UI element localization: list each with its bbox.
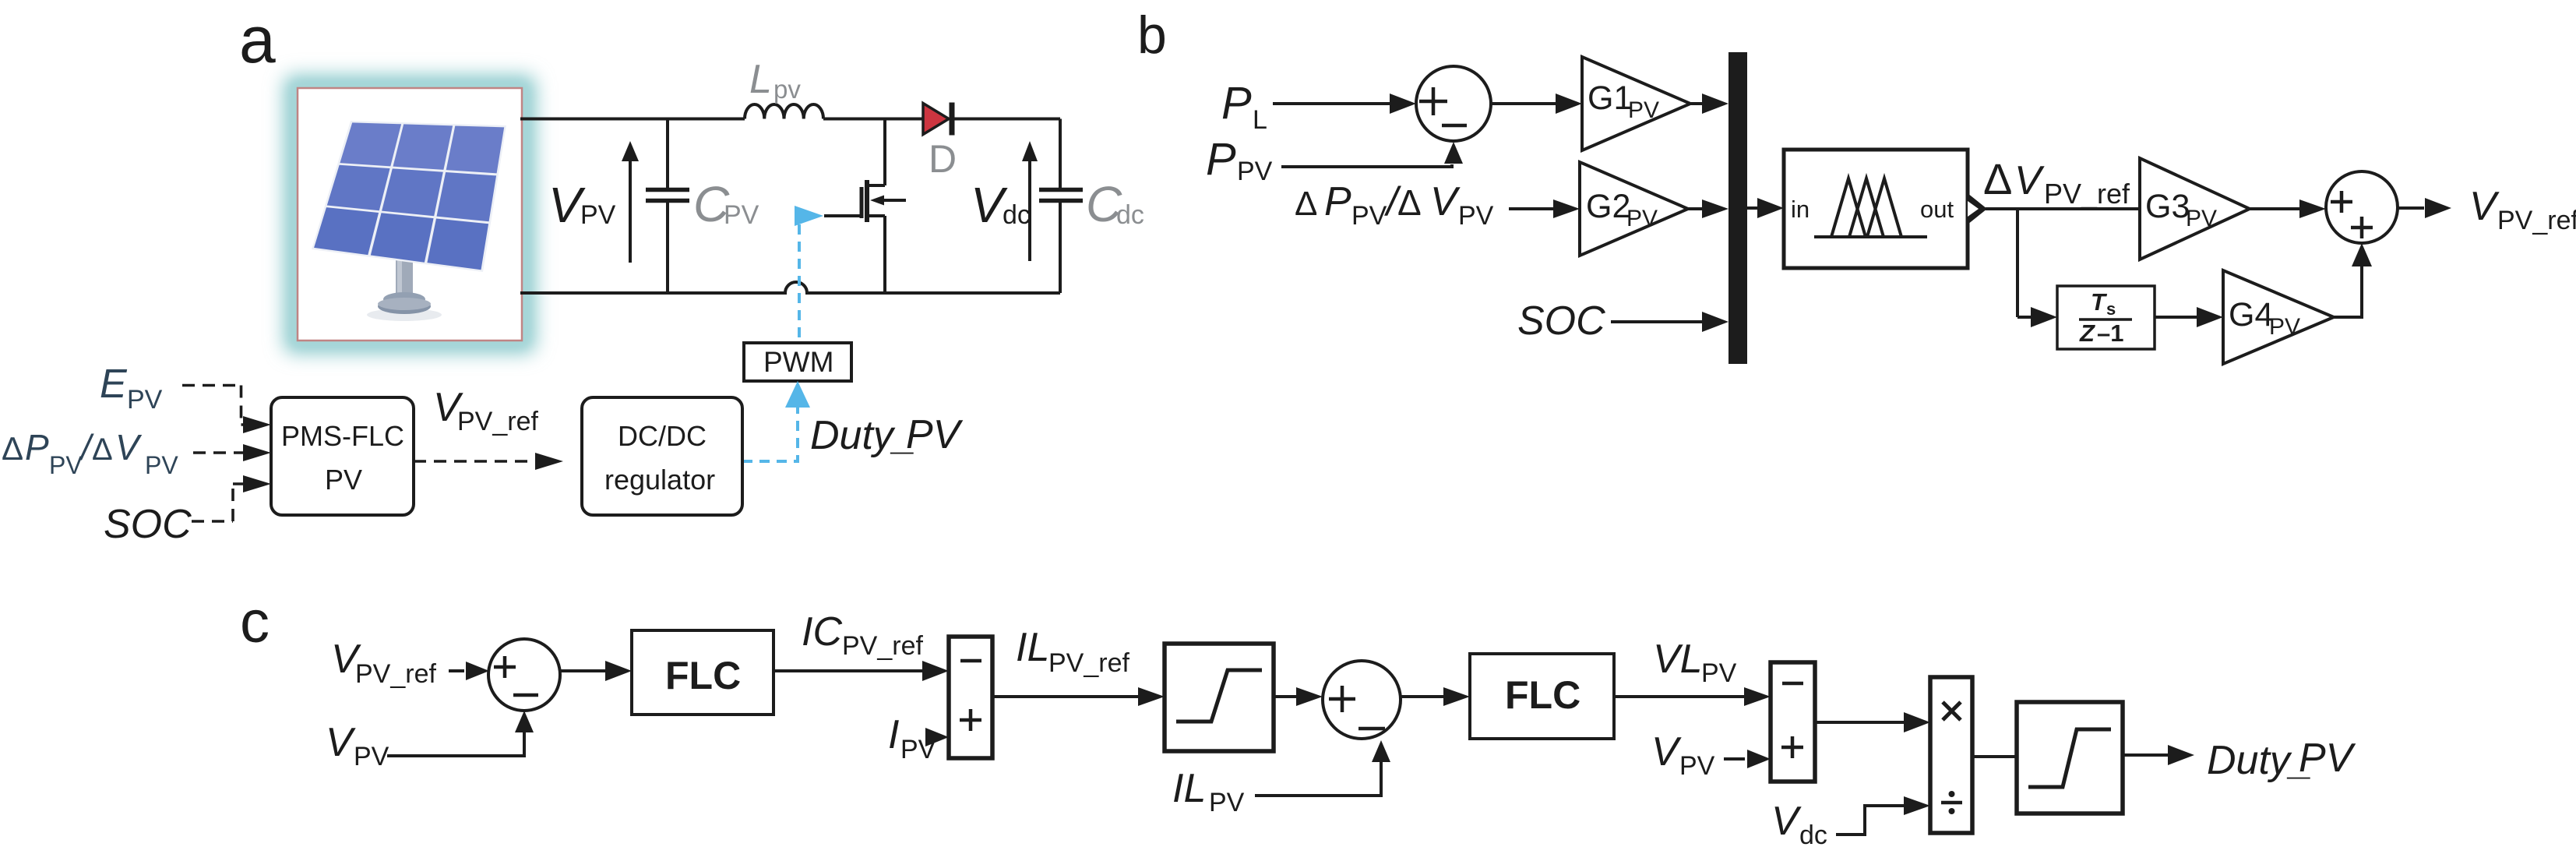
wire FLC2 to sum block B2 xyxy=(1614,695,1744,698)
label dPPV/dVPV b xyxy=(1295,179,1494,231)
svg-text:dc: dc xyxy=(1116,200,1144,230)
svg-text:P: P xyxy=(25,427,49,468)
diode D xyxy=(923,104,949,135)
svg-text:IL: IL xyxy=(1016,625,1049,670)
svg-text:G4: G4 xyxy=(2229,296,2273,334)
svg-text:PV: PV xyxy=(1237,157,1273,186)
wire G1 to mux xyxy=(1690,102,1703,105)
label dPPV/dVPV input xyxy=(2,427,178,479)
dashed wire VPV_ref to DC/DC regulator xyxy=(414,460,536,463)
wire VPV to summer C1 minus xyxy=(387,732,524,756)
svg-text:DC/DC: DC/DC xyxy=(618,420,707,452)
svg-text:V: V xyxy=(326,720,356,765)
svg-text:V: V xyxy=(1430,179,1461,224)
wire VPV_ref to summer C1 xyxy=(449,669,464,672)
svg-text:Δ: Δ xyxy=(1983,154,2012,203)
wire mux to fuzzy controller xyxy=(1747,206,1757,210)
wire saturation1 to summer C2 xyxy=(1274,695,1296,698)
svg-text:PV: PV xyxy=(724,200,759,230)
node branch dVPV_ref xyxy=(2016,209,2019,317)
svg-text:c: c xyxy=(240,589,270,655)
block PMS-FLC PV xyxy=(271,397,414,515)
fuzzy output port xyxy=(1968,193,1987,224)
block PWM xyxy=(744,343,851,381)
block fuzzy logic controller xyxy=(1784,150,1968,268)
svg-text:b: b xyxy=(1137,5,1167,65)
wire B1 to saturation1 xyxy=(992,695,1139,698)
svg-text:PV: PV xyxy=(325,464,362,496)
svg-text:PV: PV xyxy=(1351,201,1387,231)
svg-text:PV_ref: PV_ref xyxy=(2044,178,2130,210)
wire PL to summer xyxy=(1273,102,1391,105)
mux bar xyxy=(1728,52,1747,364)
arrow Vdc voltage xyxy=(1028,158,1031,261)
svg-text:Δ: Δ xyxy=(92,432,113,467)
arrow VPV voltage xyxy=(629,158,632,263)
summing junction S2 xyxy=(2326,171,2398,243)
block FLC2 xyxy=(1470,654,1614,739)
svg-text:PV: PV xyxy=(2269,314,2300,340)
svg-text:PV: PV xyxy=(127,385,163,415)
block saturation1 xyxy=(1165,644,1274,751)
svg-text:P: P xyxy=(1324,179,1351,224)
svg-text:Δ: Δ xyxy=(1295,185,1317,223)
capacitor Cdc branch wire xyxy=(1059,119,1062,294)
svg-text:G2: G2 xyxy=(1586,188,1630,225)
svg-text:G1: G1 xyxy=(1588,79,1632,117)
product block xyxy=(1930,677,1972,833)
wire S2 output VPV_ref xyxy=(2398,206,2424,210)
wire VPV to B2 plus xyxy=(1724,757,1745,761)
wire PV positive to boost input node xyxy=(520,118,745,121)
wire fuzzy out to G3 xyxy=(1986,207,2140,210)
wire G3 to summer S2 xyxy=(2250,207,2299,210)
wire Ts to G4 xyxy=(2155,316,2197,319)
summing junction S1 xyxy=(1416,66,1491,141)
svg-text:Duty_: Duty_ xyxy=(810,413,916,458)
svg-text:PWM: PWM xyxy=(763,346,833,378)
wire G2 to mux xyxy=(1688,207,1703,210)
svg-text:V: V xyxy=(115,427,143,468)
wire IPV to B1 plus xyxy=(925,728,949,746)
svg-text:SOC: SOC xyxy=(1517,298,1605,344)
wire dPPV/dVPV to G2 xyxy=(1509,207,1554,210)
block DC/DC regulator xyxy=(582,397,742,515)
svg-text:–1: –1 xyxy=(2097,319,2123,347)
svg-text:PV: PV xyxy=(1679,751,1715,781)
summing junction C2 xyxy=(1323,661,1401,739)
svg-text:Duty_: Duty_ xyxy=(2207,738,2313,783)
wire PPV to summer minus xyxy=(1281,164,1452,167)
dashed wire EPV input xyxy=(182,386,245,425)
inductor Lpv xyxy=(745,104,823,119)
sum block B2 xyxy=(1771,662,1815,782)
svg-text:IL: IL xyxy=(1172,766,1206,811)
svg-text:PV: PV xyxy=(1458,201,1494,231)
svg-text:L: L xyxy=(749,57,772,102)
svg-text:PV: PV xyxy=(145,451,178,479)
svg-text:V: V xyxy=(1651,729,1682,775)
svg-text:VL: VL xyxy=(1653,637,1703,682)
PV array photo U_PV xyxy=(284,75,536,354)
svg-text:PMS-FLC: PMS-FLC xyxy=(281,420,404,452)
svg-text:D: D xyxy=(929,137,957,181)
wire inductor to MOSFET drain node xyxy=(823,118,923,121)
svg-text:PV_ref: PV_ref xyxy=(355,659,436,689)
svg-text:PV: PV xyxy=(1628,97,1659,123)
wire C2 to FLC2 xyxy=(1401,695,1443,698)
svg-text:P: P xyxy=(1221,78,1252,129)
svg-text:PV_ref: PV_ref xyxy=(842,631,923,661)
summing junction C1 xyxy=(488,639,560,711)
gain G4PV xyxy=(2223,270,2334,364)
svg-text:PV_ref: PV_ref xyxy=(457,407,538,436)
svg-text:Δ: Δ xyxy=(2,430,23,467)
wire product to saturation2 xyxy=(1972,755,2017,758)
block saturation2 xyxy=(2017,702,2123,813)
svg-text:dc: dc xyxy=(1003,200,1031,230)
wire summer to G1 xyxy=(1491,102,1556,105)
svg-text:SOC: SOC xyxy=(104,502,192,547)
svg-text:PV: PV xyxy=(580,200,616,230)
wire branch to Ts block xyxy=(2017,316,2031,319)
capacitor Cdc xyxy=(1039,190,1083,201)
svg-text:V: V xyxy=(2469,184,2500,229)
transistor Q1 MOSFET xyxy=(824,119,906,294)
svg-text:FLC: FLC xyxy=(665,654,741,697)
capacitor CPV xyxy=(646,190,689,201)
svg-text:out: out xyxy=(1920,196,1954,223)
wire ILPV to C2 minus xyxy=(1255,762,1381,796)
dashed wire SOC input xyxy=(192,484,245,521)
svg-text:in: in xyxy=(1791,196,1810,223)
svg-text:Δ: Δ xyxy=(1397,182,1422,223)
dashed wire dPPV/dVPV input xyxy=(193,451,243,454)
wire SOC to mux xyxy=(1611,320,1703,323)
wire Vdc to divide input xyxy=(1836,806,1904,835)
svg-text:PV: PV xyxy=(354,742,389,771)
wire PV negative bottom rail with crossover hump xyxy=(520,282,1060,293)
svg-text:PV: PV xyxy=(2186,206,2217,231)
svg-text:PV_ref: PV_ref xyxy=(1048,648,1129,678)
wire C1 to FLC1 xyxy=(560,669,605,672)
gain G1PV xyxy=(1582,57,1690,150)
svg-text:PV: PV xyxy=(906,412,964,457)
wire diode cathode to Cdc top xyxy=(952,118,1060,121)
blue dashed wire DC/DC regulator to PWM xyxy=(742,407,798,461)
block Ts/(Z-1) xyxy=(2057,286,2155,349)
svg-text:I: I xyxy=(888,712,899,757)
svg-text:V: V xyxy=(2014,158,2045,203)
svg-text:dc: dc xyxy=(1799,821,1827,847)
gain G3PV xyxy=(2140,158,2250,259)
svg-text:V: V xyxy=(1771,799,1802,844)
svg-text:Z: Z xyxy=(2079,319,2095,347)
capacitor CPV branch wire xyxy=(666,119,669,294)
svg-text:IC: IC xyxy=(802,609,842,655)
svg-text:PV: PV xyxy=(49,451,83,479)
svg-text:P: P xyxy=(1206,134,1236,185)
svg-text:FLC: FLC xyxy=(1505,673,1580,717)
blue gate drive arrow into Q1 gate xyxy=(795,206,823,226)
svg-text:s: s xyxy=(2106,299,2116,319)
svg-text:L: L xyxy=(1253,105,1267,135)
svg-text:G3: G3 xyxy=(2145,188,2190,225)
svg-text:T: T xyxy=(2091,288,2108,316)
svg-text:a: a xyxy=(239,3,276,76)
fuzzy membership functions xyxy=(1814,178,1927,237)
gain G2PV xyxy=(1580,162,1688,256)
wire FLC1 to sum block B1 xyxy=(774,669,922,672)
svg-text:PV: PV xyxy=(1701,658,1737,688)
svg-text:PV_ref: PV_ref xyxy=(2497,206,2576,235)
svg-text:E: E xyxy=(100,362,128,407)
block FLC1 xyxy=(632,630,774,715)
wire saturation2 output xyxy=(2123,753,2168,757)
wire G4 to S2 plus xyxy=(2334,265,2362,317)
blue dashed wire PWM to gate xyxy=(798,224,801,343)
svg-text:PV: PV xyxy=(1626,206,1658,231)
wire B2 to multiply block xyxy=(1815,721,1904,724)
svg-text:PV: PV xyxy=(2299,736,2356,781)
sum block B1 xyxy=(949,637,992,758)
svg-text:pv: pv xyxy=(774,75,801,104)
svg-text:PV: PV xyxy=(1209,788,1245,817)
svg-text:regulator: regulator xyxy=(604,464,715,496)
